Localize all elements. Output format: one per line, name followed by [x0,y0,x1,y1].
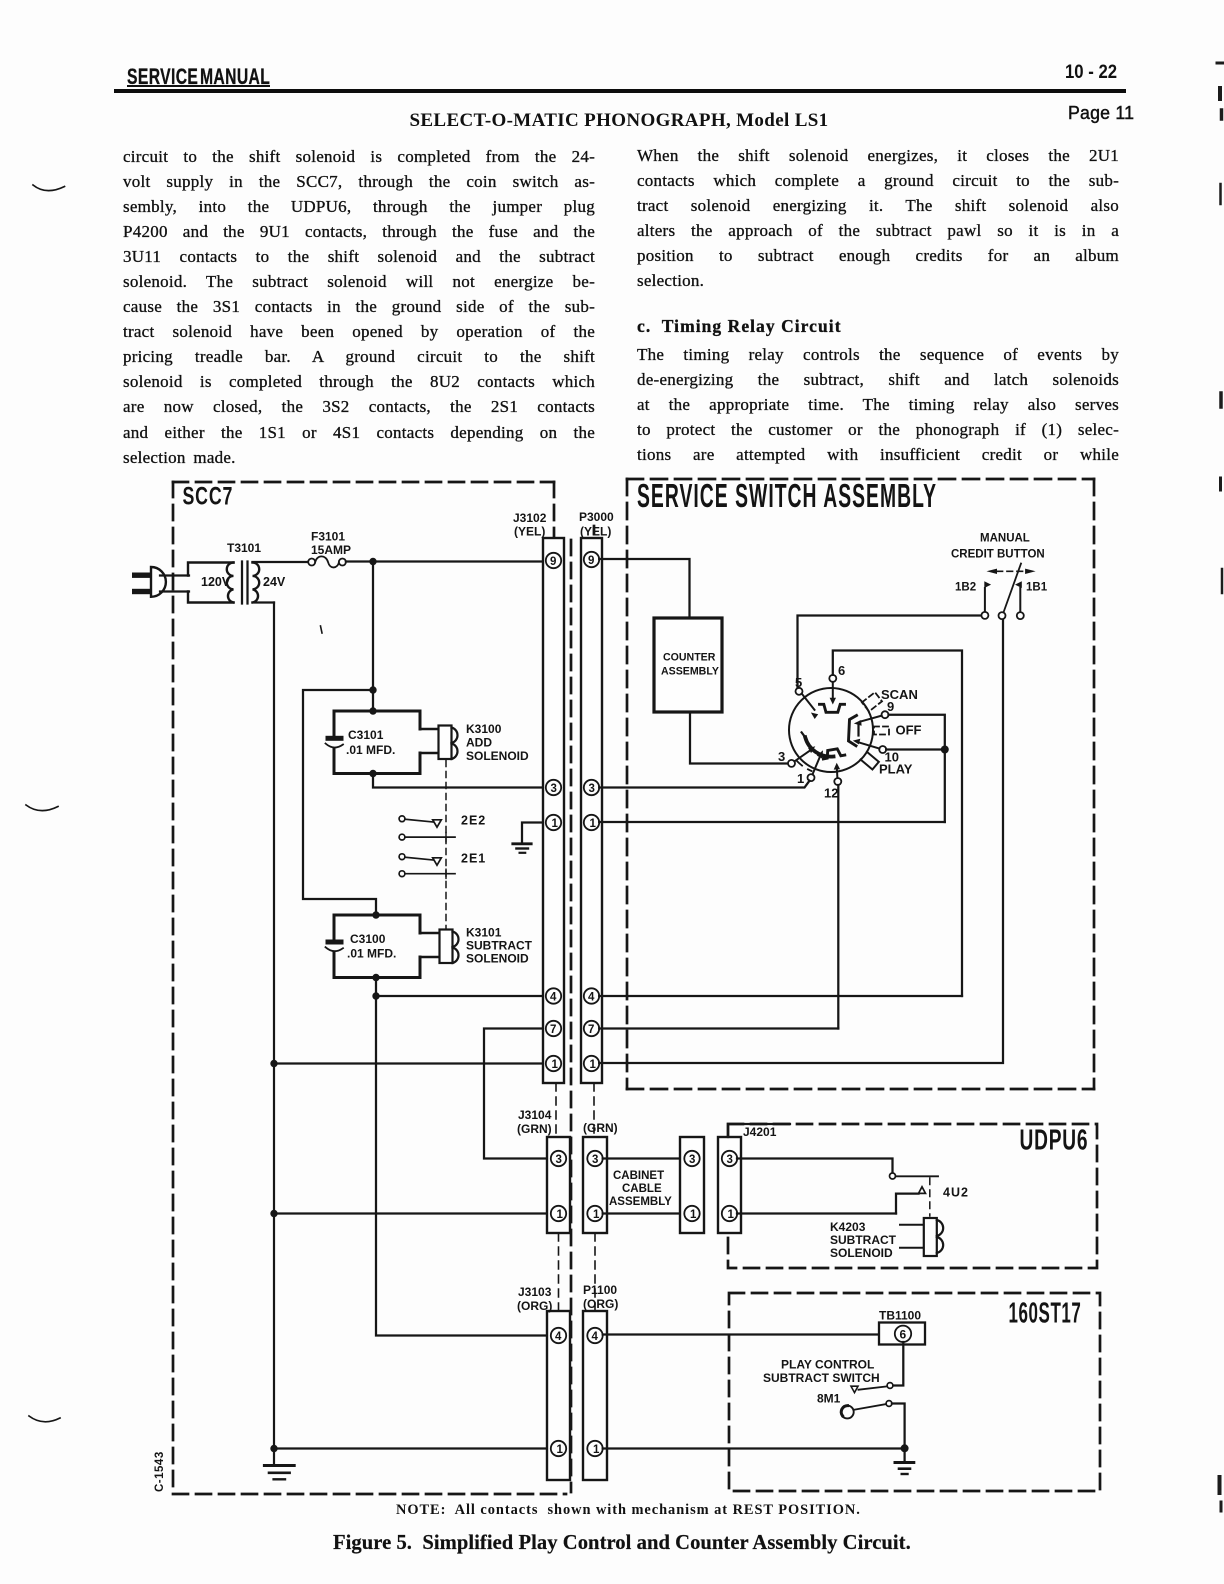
svg-text:J4201: J4201 [743,1125,777,1139]
svg-text:K3100: K3100 [466,722,502,736]
connector J4201 body [718,1137,741,1233]
J4201 pin 1 [722,1206,737,1221]
junction: loop bottom [369,770,376,777]
svg-text:5: 5 [795,675,802,690]
svg-text:6: 6 [900,1328,907,1342]
label 1B1 [1026,582,1048,594]
svg-text:C3100: C3100 [350,932,386,946]
label T3101 [227,541,261,555]
wire: 24V return line [273,603,275,1465]
fuse F3101 [308,556,346,567]
svg-text:1: 1 [728,1209,735,1221]
cam follower 8M1 [841,1406,854,1419]
svg-text:12: 12 [824,786,838,801]
svg-text:TB1100: TB1100 [879,1309,921,1323]
svg-text:120V: 120V [201,575,231,589]
svg-text:.01 MFD.: .01 MFD. [346,743,395,757]
J3104 pin 3 [551,1151,566,1166]
label 12 [824,786,838,801]
label 4U2 [943,1186,969,1200]
label 6 [838,663,845,678]
wire: feed drop to add-solenoid loop [372,562,374,712]
label J3103 (ORG) [517,1285,552,1313]
wire: bypass to subtract-solenoid loop [303,690,376,915]
J3103 pin 4 [551,1328,566,1343]
rotary service switch rotor circle [789,688,873,772]
wire: P1100 pin 4 to TB1100 [603,1333,897,1335]
cabinet right pin 3 [684,1151,699,1166]
connector GRN plug body [583,1137,607,1233]
connector J3104 body [547,1137,570,1233]
connector cabinet-cable right body [680,1137,704,1233]
label J3102 (YEL) [513,511,547,539]
P1100 pin 1 [587,1441,602,1456]
solenoid K3100 [439,726,458,760]
label (GRN) [583,1121,618,1135]
svg-text:PLAY: PLAY [879,762,913,777]
connector J3102 body [543,538,564,1083]
wire: P3000 pin 4 to terminal 6 riser [599,995,962,997]
svg-text:4: 4 [550,992,557,1004]
J3103 pin 1 [551,1441,566,1456]
P3000 pin 7 [584,1021,599,1036]
wire: 24V feed from fuse to J3102 pin 9 [346,560,545,562]
svg-text:2E1: 2E1 [461,852,486,866]
terminal 10 [853,739,945,753]
svg-text:C3101: C3101 [348,728,384,742]
junction: ground run [901,1444,909,1452]
J3102 pin 1 [546,815,561,830]
label MANUAL CREDIT BUTTON [951,533,1045,561]
junction: return at 1213 [270,1210,277,1217]
connector P1100 body [583,1311,607,1480]
svg-text:3: 3 [589,783,595,795]
right column text [637,143,1119,294]
scan artifact left margin curl top [33,185,65,191]
label F3101 15AMP [311,530,351,558]
header: 10 - 22 [1065,62,1117,84]
solenoid K3101 [440,930,459,964]
label 2E1 [461,852,486,866]
wire: P1100 pin 1 ground run [603,1447,905,1449]
svg-text:ADD: ADD [466,736,492,750]
svg-text:160ST17: 160ST17 [1009,1297,1082,1330]
J3102 pin 4 [546,988,561,1003]
AC line plug [132,567,189,597]
mechanical link (dashed) to K4203 [929,1178,931,1216]
label K3100 ADD SOLENOID [466,722,529,763]
svg-text:F3101: F3101 [311,530,345,544]
label J3104 (GRN) [517,1108,552,1136]
svg-text:J3103: J3103 [518,1285,552,1299]
wire: cabinet cable pin 1 run [603,1212,684,1214]
svg-text:3: 3 [592,1154,598,1166]
P3000 pin 3 [584,780,599,795]
svg-text:(YEL): (YEL) [514,525,545,539]
label 1B2 [955,582,976,594]
label SERVICE SWITCH ASSEMBLY [637,478,937,515]
PLAY position marker [861,752,879,770]
label 8M1 [817,1392,841,1406]
svg-text:1: 1 [557,1444,564,1456]
UDPU6 enclosure (dashed box) [728,1124,1097,1268]
label COUNTER ASSEMBLY [661,652,719,678]
label J4201 [728,1124,790,1139]
scan artifact left margin curl middle [26,805,58,811]
mechanical link (dashed) K3100 to contacts [445,761,447,929]
add solenoid loop frame [334,711,439,774]
OFF position marker (dashed) [874,727,889,735]
terminal 1 [808,750,824,781]
wire: J4201 pin 3 to 4U2 fixed contact [737,1159,893,1173]
svg-text:CREDIT BUTTON: CREDIT BUTTON [951,549,1045,561]
svg-text:J3104: J3104 [518,1108,552,1122]
title [0,110,1224,132]
wire: loop2 bottom to pin 4 [376,978,545,997]
svg-text:1: 1 [797,771,804,786]
cabinet right pin 1 [684,1206,699,1221]
rotor contact top [820,704,845,712]
label 120V [201,575,231,589]
label 24V [263,575,286,589]
svg-text:1: 1 [593,1444,600,1456]
svg-text:1: 1 [552,1059,559,1071]
thick rule [114,89,1126,94]
rotor contact bottom [822,748,845,759]
svg-text:OFF: OFF [896,723,922,738]
svg-text:1: 1 [593,1209,600,1221]
label K3101 SUBTRACT SOLENOID [466,926,533,966]
P1100 pin 4 [587,1328,602,1343]
SERVICE SWITCH ASSEMBLY enclosure (dashed box) [627,479,1094,1089]
junction: terminal 10 riser [941,746,949,754]
svg-text:4: 4 [555,1331,562,1343]
label TB1100 terminal 6 [900,1328,907,1342]
label 10 [885,750,899,765]
J3102 pin 7 [546,1021,561,1036]
junction: bypass tap [369,686,376,693]
terminal 5 [796,616,982,720]
svg-text:(GRN): (GRN) [583,1121,618,1135]
scan artifacts right edge [1217,63,1224,1511]
label SCAN [881,687,918,702]
svg-text:ASSEMBLY: ASSEMBLY [609,1196,672,1208]
svg-text:K4203: K4203 [830,1220,866,1234]
connector J3103 body [547,1311,570,1480]
svg-text:SOLENOID: SOLENOID [466,952,529,966]
solenoid K4203 [900,1218,943,1256]
svg-text:SERVICE SWITCH ASSEMBLY: SERVICE SWITCH ASSEMBLY [637,478,937,515]
wire: loop bottom to pin 3 [373,774,545,788]
label 9 [887,699,894,714]
wire: P3000 pin 7 to terminal 12 riser [599,1027,838,1029]
wire: P3000 pin 3 to terminal 1 [599,781,809,788]
terminal 12 [834,763,842,1029]
SCAN position marker (dashed) [862,692,882,711]
terminal board TB1100 [879,1323,925,1345]
GRN plug pin 1 [587,1206,602,1221]
svg-text:15AMP: 15AMP [311,543,351,557]
svg-text:.01 MFD.: .01 MFD. [347,947,396,961]
rotor contact right [849,716,859,746]
contact 4U2 moving arm [737,1187,926,1214]
label UDPU6 [1020,1125,1089,1157]
svg-text:CABINET: CABINET [613,1170,664,1182]
J3102 pin 9 [546,553,561,568]
label TB1100 [879,1309,921,1323]
wire: J3103 pin 1 to return [274,1447,545,1449]
svg-text:PLAY CONTROL: PLAY CONTROL [781,1358,874,1372]
svg-text:1: 1 [552,818,559,830]
scan artifact left margin curl bottom [29,1416,60,1422]
svg-text:(GRN): (GRN) [517,1122,552,1136]
junction: loop2 top [372,911,379,918]
label CABINET CABLE ASSEMBLY [609,1170,672,1208]
stray mark [321,626,323,633]
svg-text:1: 1 [557,1209,564,1221]
label 5 [795,675,802,690]
svg-text:8M1: 8M1 [817,1392,841,1406]
wire: P3000 pin 1 lower to credit button [599,619,1003,1063]
transformer T3101 [188,562,308,604]
contact 1B2 [981,581,991,619]
svg-text:P3000: P3000 [579,510,614,524]
svg-text:SOLENOID: SOLENOID [830,1246,893,1260]
label SCC7 [183,481,234,510]
cable link P3000 to GRN plug (dashed) [593,1083,595,1137]
junction: loop2 bottom [372,974,379,981]
contacts 2E2 [399,816,455,842]
label P3000 (YEL) [579,510,614,539]
label 3 [778,749,785,764]
wire: TB1100 to subtract switch [893,1342,903,1386]
ground: 160ST17 [895,1448,914,1474]
svg-text:1: 1 [590,1059,597,1071]
junction: return at 1448 [270,1445,277,1452]
P3000 pin 9 [584,552,599,567]
svg-text:1B1: 1B1 [1026,582,1048,594]
label P1100 (ORG) [583,1283,618,1311]
svg-text:3: 3 [727,1154,733,1166]
svg-text:SUBTRACT: SUBTRACT [466,939,533,953]
svg-text:1: 1 [590,818,597,830]
junction: loop top [369,707,376,714]
ground at J3102 pin 1 [513,823,545,853]
svg-text:CABLE: CABLE [622,1183,662,1195]
label 2E2 [461,814,486,828]
svg-text:SCAN: SCAN [881,687,918,702]
Page 11 [1068,102,1134,124]
header: SERVICE MANUAL [127,64,270,90]
cable link GRN to P1100 (dashed) [594,1233,596,1311]
svg-text:P1100: P1100 [583,1283,617,1297]
svg-text:UDPU6: UDPU6 [1020,1125,1089,1157]
P3000 pin 4 [584,988,599,1003]
svg-text:9: 9 [550,556,556,568]
label PLAY [879,762,913,777]
svg-text:4: 4 [592,1331,599,1343]
terminal 9 [854,711,945,822]
label C3100 .01 MFD. [347,932,396,961]
subtract solenoid loop frame [334,915,440,978]
label 160ST17 [1009,1297,1082,1330]
rotor circle dashes lower-left [797,761,812,772]
svg-text:(ORG): (ORG) [583,1297,618,1311]
junction: pin4 tap [372,992,379,999]
svg-text:MANUAL: MANUAL [980,533,1030,545]
svg-text:4: 4 [588,992,595,1004]
label OFF [896,723,922,738]
connector P3000 body [581,538,602,1083]
160ST17 enclosure (dashed box) [729,1293,1100,1491]
P3000 pin 1 lower [584,1056,599,1071]
svg-text:7: 7 [588,1024,594,1036]
wire: cabinet cable pin 3 run [603,1157,684,1159]
svg-text:(YEL): (YEL) [580,525,611,539]
svg-text:ASSEMBLY: ASSEMBLY [661,666,719,678]
contact 1B1 [1015,581,1024,619]
GRN plug pin 3 [587,1151,602,1166]
svg-text:9: 9 [588,555,594,567]
svg-text:J3102: J3102 [513,511,547,525]
svg-text:3: 3 [551,783,557,795]
left column text [123,144,595,470]
junction: return at 1063 [270,1060,277,1067]
svg-text:3: 3 [778,749,785,764]
ground: SCC7 return [264,1466,294,1480]
wire: down to J3103 pin 4 [376,996,545,1336]
play control subtract switch lower contact [854,1401,905,1449]
svg-text:3: 3 [556,1154,562,1166]
svg-text:4U2: 4U2 [943,1186,969,1200]
wire: J3102 pin 1 (lower) to return line [274,1062,545,1064]
P3000 pin 1 [584,815,599,830]
svg-text:SCC7: SCC7 [183,481,234,510]
credit button common blade [999,564,1022,620]
label 1 [797,771,804,786]
label PLAY CONTROL SUBTRACT SWITCH [763,1358,880,1386]
svg-text:C-1543: C-1543 [154,1451,166,1492]
wire: P3000 pin 1 to terminals 9/10 [599,821,945,823]
4U2 fixed contact [890,1173,939,1179]
terminal 3 [788,746,815,767]
terminal 6 [829,651,962,997]
play control subtract switch upper contact [851,1383,893,1393]
svg-text:SUBTRACT SWITCH: SUBTRACT SWITCH [763,1371,880,1385]
svg-text:COUNTER: COUNTER [663,652,716,664]
J3104 pin 1 [551,1206,566,1221]
junction: feed tap [369,558,376,565]
svg-text:SOLENOID: SOLENOID [466,749,529,763]
wire: counter assembly to switch terminal 3 [690,712,787,764]
svg-text:2E2: 2E2 [461,814,486,828]
cable link J3102 to J3104 (dashed) [555,1083,557,1137]
J4201 pin 3 [722,1151,737,1166]
J3102 pin 1 lower [546,1056,561,1071]
svg-text:SUBTRACT: SUBTRACT [830,1233,897,1247]
svg-text:T3101: T3101 [227,541,261,555]
label K4203 SUBTRACT SOLENOID [830,1220,897,1260]
svg-text:7: 7 [550,1024,556,1036]
label C3101 .01 MFD. [346,728,395,757]
SCC7 enclosure (dashed box) [173,482,594,1494]
capacitor C3100 [326,940,344,952]
label C-1543 [154,1451,166,1492]
svg-text:1B2: 1B2 [955,582,976,594]
capacitor C3101 [326,736,344,748]
J3102 pin 3 [546,780,561,795]
svg-text:3: 3 [689,1154,695,1166]
wire: J3102 pin 7 to J3104 pin 3 [484,1029,545,1159]
rotor contact arc lower-left [802,732,834,756]
svg-text:6: 6 [838,663,845,678]
svg-text:K3101: K3101 [466,926,502,940]
note + figure caption [396,1502,861,1519]
cable link J3104 to J3103 (dashed) [558,1233,560,1311]
svg-text:24V: 24V [263,575,286,589]
counter assembly box [654,618,722,712]
svg-text:(ORG): (ORG) [517,1299,552,1313]
wire: J3104 pin 1 to return [274,1212,545,1214]
credit button travel arrow (dashed) [987,569,1036,574]
wire: P3000 pin 9 to counter assembly [599,559,689,616]
contacts 2E1 [399,854,455,879]
svg-text:1: 1 [690,1209,697,1221]
